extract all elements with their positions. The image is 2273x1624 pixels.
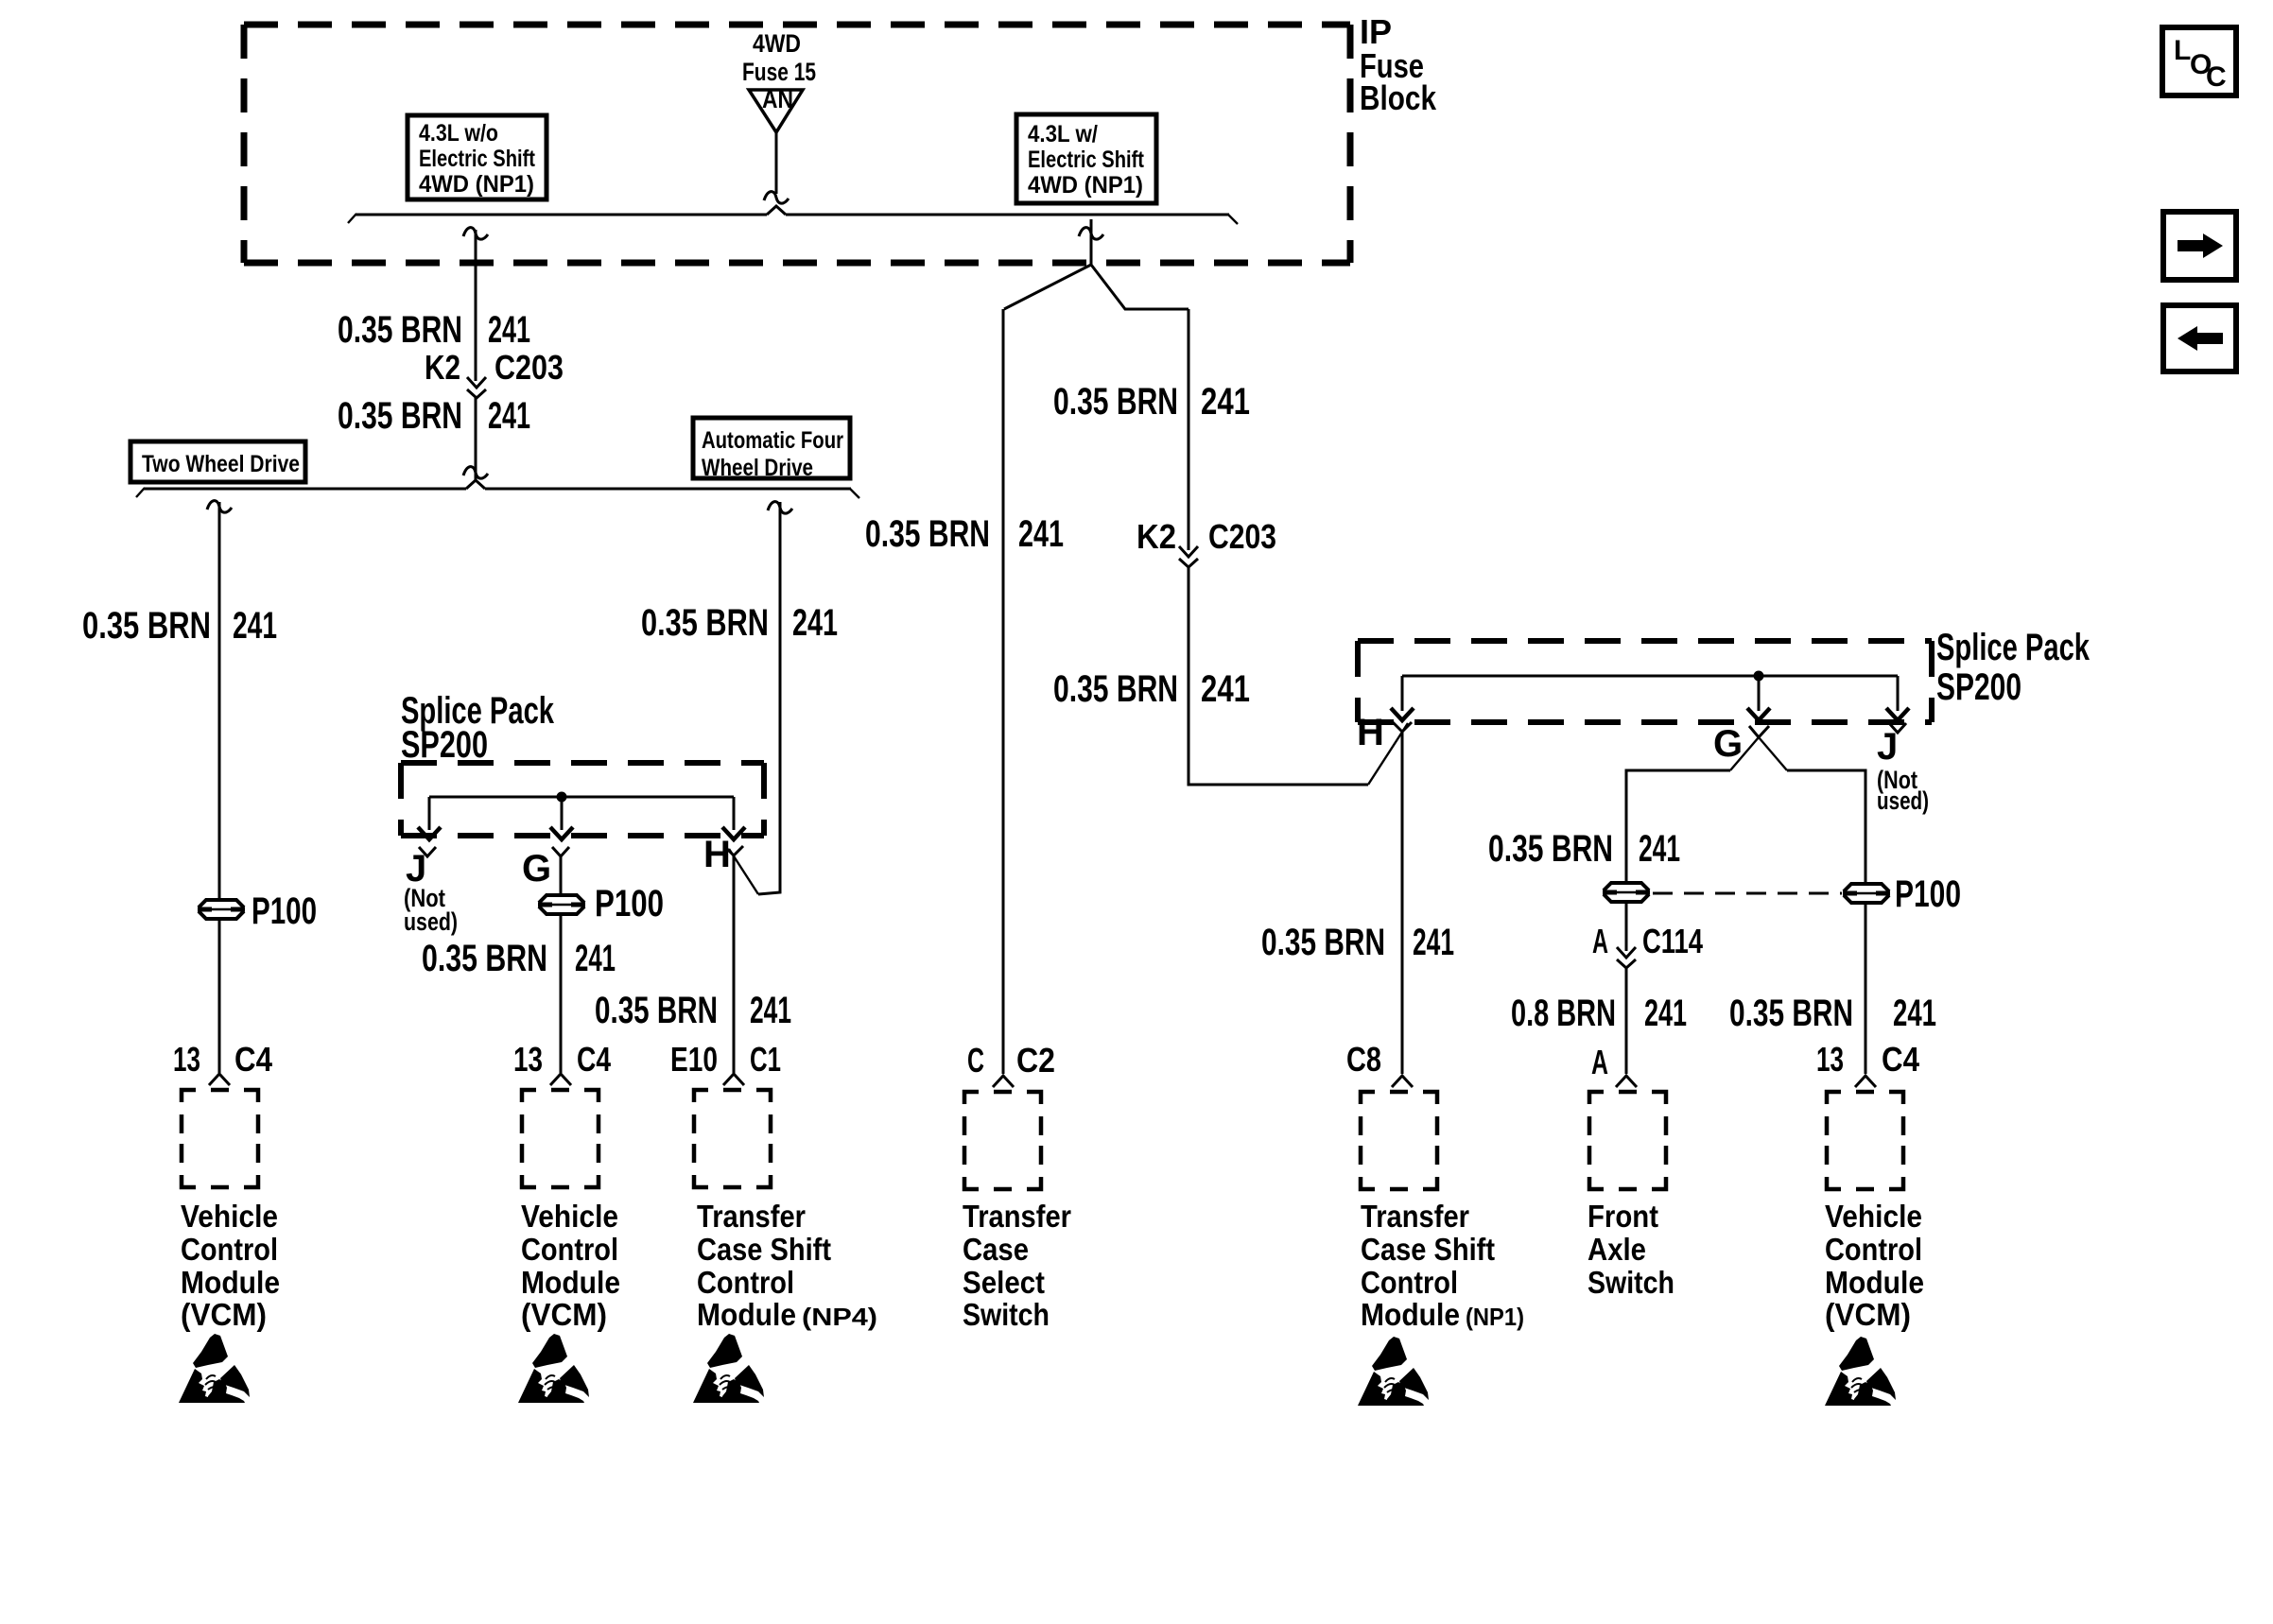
Splice Pack SP200 label (left): [401, 690, 555, 766]
svg-text:C2: C2: [1016, 1041, 1055, 1080]
svg-text:SP200: SP200: [1936, 666, 2021, 708]
ESD symbol TCSCM NP1: [1358, 1337, 1429, 1406]
svg-text:C203: C203: [1208, 517, 1276, 556]
svg-text:Control: Control: [1825, 1232, 1922, 1267]
svg-text:0.35 BRN: 0.35 BRN: [1053, 381, 1178, 423]
svg-text:Transfer: Transfer: [697, 1199, 806, 1234]
svg-text:0.35 BRN: 0.35 BRN: [865, 513, 990, 555]
wire Y split: [1004, 265, 1189, 309]
bus inside fuse block: [348, 206, 1238, 224]
Vehicle Control Module (VCM) label (mid): [521, 1199, 620, 1332]
Transfer Case Shift Control Module (NP4) label: [697, 1199, 877, 1332]
Vehicle Control Module connector box (right): [1827, 1092, 1903, 1189]
svg-text:0.35 BRN: 0.35 BRN: [1261, 922, 1385, 963]
fuse 4WD Fuse 15 symbol: [749, 85, 803, 132]
wire G branch right to VCM3: [1753, 731, 1865, 1074]
pin H chevron: [703, 834, 743, 875]
svg-text:Switch: Switch: [1588, 1265, 1674, 1300]
lower bus (two wheel drive / A4WD): [136, 480, 859, 498]
svg-text:K2: K2: [1136, 517, 1176, 556]
pin 13 C4: [173, 1040, 272, 1085]
label 0.35 BRN 241 (VCM3 wire): [1729, 993, 1936, 1034]
Transfer Case Select Switch connector box: [964, 1092, 1041, 1189]
label 0.35 BRN 241: [338, 309, 530, 351]
wire break curl at tap: [768, 502, 792, 514]
svg-text:(NP4): (NP4): [802, 1303, 877, 1331]
connector P100 grommet (mid): [538, 883, 664, 924]
svg-text:SP200: SP200: [401, 724, 488, 766]
ESD symbol TCSCM NP4: [693, 1334, 764, 1403]
svg-text:241: 241: [1413, 922, 1454, 963]
svg-text:K2: K2: [425, 348, 460, 387]
svg-text:241: 241: [750, 990, 791, 1031]
svg-text:Axle: Axle: [1588, 1232, 1646, 1267]
left arrow nav box: [2163, 305, 2236, 371]
wire from bus to Y split (right drop): [1090, 219, 1093, 265]
svg-text:Block: Block: [1360, 78, 1437, 117]
svg-text:C4: C4: [1882, 1040, 1919, 1079]
svg-text:Electric Shift: Electric Shift: [419, 146, 536, 172]
pin G chevron: [522, 847, 569, 890]
dashed tie between P100 grommets: [1653, 892, 1842, 895]
svg-text:241: 241: [792, 602, 838, 644]
wire G branch left to front axle switch: [1626, 731, 1764, 1074]
Vehicle Control Module connector box: [182, 1090, 258, 1187]
svg-text:Select: Select: [963, 1265, 1045, 1300]
svg-text:J: J: [1877, 726, 1898, 768]
option box 4.3L w/ Electric Shift 4WD (NP1): [1016, 114, 1156, 203]
wire G branch to VCM2: [560, 856, 563, 1073]
Vehicle Control Module (VCM) label: [181, 1199, 280, 1332]
wire break curl: [1079, 228, 1103, 240]
IP Fuse Block dashed enclosure: [244, 25, 1350, 263]
label 0.8 BRN 241: [1511, 993, 1687, 1034]
wire A4WD branch down to SP200 H: [729, 502, 780, 894]
label 0.35 BRN 241: [82, 605, 277, 647]
Front Axle Switch label: [1588, 1199, 1674, 1300]
svg-text:Vehicle: Vehicle: [181, 1199, 278, 1234]
svg-text:Two Wheel Drive: Two Wheel Drive: [142, 451, 300, 477]
svg-text:0.35 BRN: 0.35 BRN: [338, 395, 462, 437]
Two Wheel Drive box: [130, 441, 305, 482]
svg-text:241: 241: [575, 938, 616, 979]
junction dot: [1754, 671, 1764, 682]
pin C8: [1346, 1040, 1413, 1087]
wire from bus to C203 (left drop): [475, 230, 477, 480]
svg-text:241: 241: [1018, 513, 1064, 555]
LOC legend box: [2162, 27, 2236, 95]
svg-text:Module: Module: [1361, 1297, 1460, 1332]
splice bus (right): [1402, 675, 1898, 678]
Transfer Case Shift Control Module (NP1) label: [1361, 1199, 1524, 1332]
Automatic Four Wheel Drive box: [693, 418, 850, 481]
svg-text:0.35 BRN: 0.35 BRN: [1729, 993, 1853, 1034]
svg-text:Transfer: Transfer: [963, 1199, 1071, 1234]
svg-text:P100: P100: [595, 883, 664, 924]
label 0.35 BRN 241: [1053, 381, 1250, 423]
svg-text:C8: C8: [1346, 1040, 1381, 1079]
svg-text:Splice Pack: Splice Pack: [1936, 627, 2091, 668]
wire break curl above lower bus: [463, 467, 488, 479]
svg-text:Case: Case: [963, 1232, 1029, 1267]
label 0.35 BRN 241: [422, 938, 616, 979]
Splice Pack SP200 label (right): [1936, 627, 2091, 708]
svg-text:0.35 BRN: 0.35 BRN: [595, 990, 718, 1031]
junction dot: [557, 792, 567, 803]
wire break curl at tap: [207, 501, 232, 513]
svg-text:4WD: 4WD: [753, 29, 801, 58]
svg-text:Wheel Drive: Wheel Drive: [702, 455, 813, 481]
Vehicle Control Module connector box (mid): [522, 1090, 599, 1187]
svg-text:AN: AN: [762, 85, 793, 113]
label 0.35 BRN 241: [641, 602, 838, 644]
svg-text:Fuse 15: Fuse 15: [742, 58, 816, 86]
svg-text:Module: Module: [1825, 1265, 1924, 1300]
splice arrow G: [1747, 676, 1770, 720]
svg-text:L: L: [2174, 35, 2191, 66]
wire transfer case select switch branch: [1002, 309, 1005, 1074]
svg-text:C114: C114: [1642, 922, 1703, 960]
svg-text:Automatic Four: Automatic Four: [702, 427, 843, 454]
svg-text:A: A: [1592, 922, 1608, 960]
svg-text:Vehicle: Vehicle: [521, 1199, 618, 1234]
svg-text:241: 241: [488, 309, 530, 351]
svg-text:C: C: [2206, 61, 2227, 93]
splice bus: [429, 796, 734, 799]
pin J chevron (right, not used): [1877, 723, 1929, 815]
svg-text:C4: C4: [577, 1040, 611, 1079]
svg-text:Control: Control: [697, 1265, 794, 1300]
svg-text:0.8 BRN: 0.8 BRN: [1511, 993, 1616, 1034]
svg-text:Control: Control: [521, 1232, 618, 1267]
svg-text:Case Shift: Case Shift: [1361, 1232, 1495, 1267]
label 0.35 BRN 241: [595, 990, 791, 1031]
svg-text:0.35 BRN: 0.35 BRN: [338, 309, 462, 351]
Transfer Case Shift Control Module connector box (NP1): [1361, 1092, 1437, 1189]
svg-text:C4: C4: [234, 1040, 272, 1079]
pin C C2: [967, 1041, 1055, 1087]
svg-text:0.35 BRN: 0.35 BRN: [1488, 828, 1613, 870]
splice arrow J: [1886, 676, 1909, 720]
connector C114 pin A: [1592, 922, 1703, 968]
svg-text:G: G: [1713, 723, 1743, 765]
svg-text:used): used): [1877, 786, 1929, 815]
connector P100 grommet (front axle): [1603, 883, 1650, 902]
Transfer Case Shift Control Module connector box (NP4): [694, 1090, 771, 1187]
pin A: [1591, 1043, 1637, 1087]
svg-text:13: 13: [513, 1040, 543, 1079]
label 0.35 BRN 241: [1053, 668, 1250, 710]
svg-text:P100: P100: [1895, 873, 1961, 915]
splice arrow H: [722, 797, 745, 839]
svg-text:241: 241: [1644, 993, 1687, 1034]
pin E10 C1: [670, 1040, 781, 1085]
svg-text:C203: C203: [495, 348, 564, 387]
svg-text:C: C: [967, 1041, 984, 1080]
svg-text:241: 241: [488, 395, 530, 437]
svg-text:Transfer: Transfer: [1361, 1199, 1469, 1234]
Vehicle Control Module (VCM) label (right): [1825, 1199, 1924, 1332]
ESD symbol VCM2: [518, 1334, 589, 1403]
option box 4.3L w/o Electric Shift 4WD (NP1): [408, 115, 547, 199]
connector C203 pin K2 (right): [1136, 517, 1276, 567]
svg-text:G: G: [522, 848, 551, 890]
svg-text:Module: Module: [697, 1297, 796, 1332]
svg-text:(NP1): (NP1): [1466, 1303, 1524, 1331]
svg-text:(VCM): (VCM): [181, 1297, 267, 1332]
pin 13 C4: [513, 1040, 611, 1085]
connector C203 pin K2: [425, 348, 564, 398]
wire H branch down to TCSCM NP1: [1401, 732, 1404, 1074]
pin H chevron (right): [1357, 712, 1412, 753]
svg-text:13: 13: [1816, 1040, 1844, 1079]
svg-text:0.35 BRN: 0.35 BRN: [641, 602, 769, 644]
svg-text:Case Shift: Case Shift: [697, 1232, 831, 1267]
wire break curl: [463, 228, 488, 240]
svg-text:(VCM): (VCM): [521, 1297, 607, 1332]
svg-text:Module: Module: [521, 1265, 620, 1300]
right arrow nav box: [2163, 212, 2236, 280]
svg-text:0.35 BRN: 0.35 BRN: [82, 605, 211, 647]
splice arrow J: [418, 797, 441, 839]
svg-text:0.35 BRN: 0.35 BRN: [422, 938, 547, 979]
fuse F15 label: [742, 29, 816, 86]
svg-text:241: 241: [1201, 668, 1250, 710]
svg-text:241: 241: [1893, 993, 1936, 1034]
svg-text:4WD (NP1): 4WD (NP1): [419, 171, 534, 198]
connector P100 grommet (right): [1843, 873, 1961, 915]
svg-text:used): used): [404, 907, 458, 936]
label 0.35 BRN 241: [1261, 922, 1454, 963]
label 0.35 BRN 241: [865, 513, 1064, 555]
IP Fuse Block label: [1360, 12, 1437, 117]
svg-text:P100: P100: [252, 890, 317, 932]
wire fuse to bus: [775, 132, 778, 194]
svg-text:E10: E10: [670, 1040, 718, 1079]
svg-text:Control: Control: [181, 1232, 278, 1267]
pin G chevron (right): [1713, 723, 1769, 765]
svg-text:A: A: [1591, 1043, 1608, 1081]
svg-text:Front: Front: [1588, 1199, 1658, 1234]
wire break curl at fuse stem: [764, 192, 789, 204]
svg-text:4.3L w/o: 4.3L w/o: [419, 120, 498, 147]
Splice Pack SP200 dashed box (left): [401, 763, 764, 836]
svg-text:0.35 BRN: 0.35 BRN: [1053, 668, 1178, 710]
svg-text:Module: Module: [181, 1265, 280, 1300]
svg-text:4.3L w/: 4.3L w/: [1028, 121, 1098, 147]
pin 13 C4 (right): [1816, 1040, 1919, 1087]
svg-text:(VCM): (VCM): [1825, 1297, 1911, 1332]
ESD symbol VCM1: [179, 1334, 250, 1403]
wire H branch to TCSCM NP4: [733, 856, 736, 1073]
svg-text:241: 241: [1201, 381, 1250, 423]
svg-text:13: 13: [173, 1040, 200, 1079]
ESD symbol VCM3: [1825, 1337, 1896, 1406]
svg-text:4WD (NP1): 4WD (NP1): [1028, 172, 1143, 199]
splice arrow G: [550, 797, 573, 839]
label 0.35 BRN 241: [338, 395, 530, 437]
svg-text:241: 241: [233, 605, 277, 647]
svg-text:Switch: Switch: [963, 1297, 1050, 1332]
Transfer Case Select Switch label: [963, 1199, 1071, 1332]
wire VCM1 branch: [218, 502, 221, 1073]
svg-text:Vehicle: Vehicle: [1825, 1199, 1922, 1234]
svg-text:IP: IP: [1360, 12, 1392, 51]
wire electric shift branch: [1189, 309, 1368, 785]
svg-text:241: 241: [1639, 828, 1680, 870]
Splice Pack SP200 dashed box (right): [1358, 641, 1932, 722]
svg-text:Control: Control: [1361, 1265, 1458, 1300]
pin J chevron (not used): [404, 847, 458, 936]
svg-text:Electric Shift: Electric Shift: [1028, 147, 1145, 173]
connector P100 grommet: [198, 890, 317, 932]
label 0.35 BRN 241: [1488, 828, 1680, 870]
splice arrow H: [1391, 676, 1414, 720]
wire diagonal into SP200 H (right): [1368, 723, 1408, 785]
Front Axle Switch connector box: [1589, 1092, 1666, 1189]
svg-text:C1: C1: [750, 1040, 781, 1079]
svg-text:H: H: [703, 834, 731, 875]
svg-text:H: H: [1357, 712, 1384, 753]
